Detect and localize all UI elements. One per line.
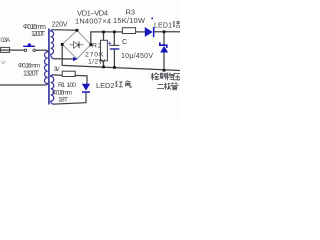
svg-text:0.3A: 0.3A bbox=[1, 38, 11, 44]
svg-text:R1: R1 bbox=[58, 82, 65, 89]
svg-text:10μ/450V: 10μ/450V bbox=[121, 53, 153, 60]
svg-text:C: C bbox=[122, 39, 127, 46]
svg-text:LED1: LED1 bbox=[154, 22, 172, 29]
svg-text:15K/10W: 15K/10W bbox=[113, 16, 146, 25]
svg-text:18T: 18T bbox=[58, 97, 68, 104]
svg-text:Φ0.16mm: Φ0.16mm bbox=[23, 24, 46, 31]
svg-text:1200T: 1200T bbox=[31, 31, 46, 38]
svg-text:R2: R2 bbox=[92, 43, 102, 50]
svg-text:270K: 270K bbox=[85, 51, 104, 58]
svg-text:220V: 220V bbox=[52, 22, 68, 29]
svg-text:100: 100 bbox=[67, 82, 77, 89]
svg-text:3V: 3V bbox=[54, 66, 61, 73]
svg-text:1320T: 1320T bbox=[23, 70, 40, 77]
svg-text:1N4007×4: 1N4007×4 bbox=[75, 17, 111, 26]
svg-text:LED2: LED2 bbox=[96, 81, 115, 90]
svg-text:1/2W: 1/2W bbox=[88, 58, 106, 65]
svg-text:Φ0.16mm: Φ0.16mm bbox=[18, 62, 40, 69]
